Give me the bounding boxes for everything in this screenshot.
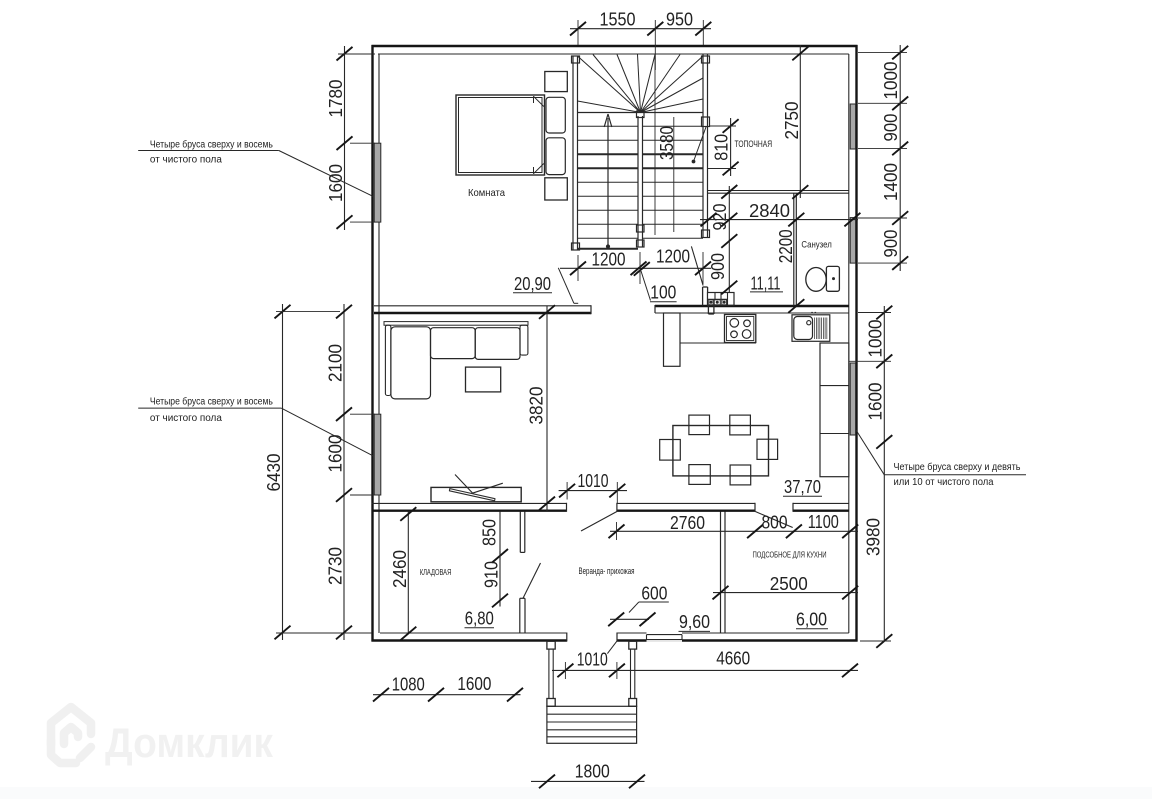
svg-text:9,60: 9,60 [679, 612, 710, 632]
svg-text:1600: 1600 [865, 383, 885, 421]
kitchen east cabinet [820, 343, 849, 477]
svg-text:2760: 2760 [670, 513, 705, 533]
dimension 900 vertical [728, 241, 730, 293]
kitchen pier [664, 313, 681, 366]
bed mattress [456, 95, 545, 175]
svg-text:3980: 3980 [863, 518, 883, 556]
svg-text:КЛАДОВАЯ: КЛАДОВАЯ [420, 567, 452, 577]
wall kitchen north cap [654, 305, 656, 313]
svg-text:950: 950 [666, 10, 693, 30]
dining table [673, 426, 769, 476]
door leaf stairs-kitchen [691, 246, 703, 285]
svg-text:Комната: Комната [468, 187, 505, 199]
dimension 2460 [407, 512, 409, 635]
svg-text:1780: 1780 [326, 80, 346, 118]
sofa cushion 1 [431, 328, 476, 359]
sofa chaise [391, 327, 431, 399]
dimension left 2100 1600 2730 [343, 304, 345, 640]
svg-text:900: 900 [708, 253, 728, 280]
dimension 910 [499, 551, 501, 607]
svg-text:2500: 2500 [770, 574, 808, 594]
dining chairs [689, 415, 710, 435]
svg-text:1800: 1800 [575, 762, 610, 782]
dimension 1800 [531, 780, 645, 782]
svg-text:3580: 3580 [657, 126, 677, 160]
stairs direction arrow [607, 118, 609, 247]
wall top outer [372, 45, 858, 47]
sofa back [384, 322, 528, 326]
svg-text:2100: 2100 [325, 344, 345, 382]
dimension 1200 1200 [560, 267, 711, 269]
dimension 3580 [673, 117, 675, 232]
svg-text:11,11: 11,11 [751, 274, 781, 294]
svg-text:Четыре бруса сверху и восемь: Четыре бруса сверху и восемь [150, 397, 273, 408]
wall bedroom south thin [374, 305, 591, 307]
svg-text:2200: 2200 [776, 229, 796, 263]
wall bottom storeroom outer [372, 639, 568, 641]
porch posts bottom [547, 699, 555, 707]
dimension 850 [499, 512, 501, 561]
toilet [806, 268, 826, 292]
svg-text:Домклик: Домклик [105, 719, 273, 766]
door leaf storeroom [523, 563, 541, 598]
stairs center rail [637, 116, 639, 247]
svg-text:от чистого пола: от чистого пола [150, 155, 223, 166]
svg-text:Веранда- прихожая: Веранда- прихожая [579, 566, 635, 576]
porch rails [548, 649, 550, 698]
wall left inner [378, 54, 380, 633]
svg-text:1600: 1600 [326, 164, 346, 202]
dimension left 1780 1600 [344, 46, 346, 230]
dimension 3820 [546, 306, 548, 511]
svg-text:ТОПОЧНАЯ: ТОПОЧНАЯ [735, 139, 773, 149]
wall right inner [848, 54, 850, 633]
dimension 1010 upper [559, 490, 627, 492]
bed corner folds [534, 96, 544, 106]
wall bedroom south cap [590, 305, 592, 314]
stairs winder fan [578, 112, 704, 114]
entry door threshold [647, 632, 683, 642]
dimension right 1000 1600 3980 [883, 306, 885, 642]
wall veranda north segment A thin [372, 502, 567, 504]
stairs treads right flight [643, 125, 704, 127]
svg-text:850: 850 [479, 519, 499, 546]
wall kitchen north thick [655, 305, 849, 307]
bed nightstand top [545, 72, 568, 92]
svg-text:Четыре бруса сверху и восемь: Четыре бруса сверху и восемь [150, 139, 273, 150]
watermark bottom band [0, 787, 1152, 799]
porch steps [547, 706, 637, 743]
svg-text:1550: 1550 [600, 10, 636, 30]
dimension 810 [730, 118, 732, 176]
wall veranda north segment C cap [792, 503, 794, 512]
svg-text:600: 600 [641, 584, 667, 604]
svg-text:3820: 3820 [527, 387, 547, 425]
wall bedroom south thick [374, 312, 591, 314]
kitchen sink [792, 315, 830, 342]
svg-text:1000: 1000 [865, 320, 885, 358]
sofa cushion 2 [475, 328, 520, 360]
svg-text:37,70: 37,70 [784, 477, 821, 497]
svg-text:20,90: 20,90 [514, 274, 551, 294]
dimension 1010 bottom and 4660 [552, 669, 858, 671]
svg-text:900: 900 [881, 230, 901, 258]
svg-text:1400: 1400 [881, 163, 901, 201]
wall veranda north segment A cap [566, 503, 568, 512]
kitchen cabinet line [680, 342, 756, 344]
svg-text:1010: 1010 [577, 650, 608, 670]
dimension 2200 [788, 299, 804, 313]
svg-text:1000: 1000 [881, 62, 901, 100]
dimension top 1550 950 [570, 28, 711, 30]
wall top inner [378, 53, 849, 55]
svg-text:2460: 2460 [390, 550, 410, 588]
wall bottom right section inner [617, 632, 849, 634]
dimension 920 [728, 186, 730, 241]
svg-text:или 10 от чистого пола: или 10 от чистого пола [894, 477, 995, 488]
wall left outer [371, 45, 373, 642]
svg-text:6,00: 6,00 [796, 610, 827, 630]
porch posts top [547, 641, 555, 649]
wall utility west [720, 511, 722, 633]
dimension 2750 [799, 45, 801, 198]
wall veranda north segment A thick [372, 510, 567, 512]
svg-text:от чистого пола: от чистого пола [150, 413, 223, 424]
svg-text:2730: 2730 [325, 547, 345, 585]
svg-text:2750: 2750 [782, 102, 802, 140]
svg-text:Четыре бруса сверху и девять: Четыре бруса сверху и девять [894, 462, 1021, 473]
wall bottom right cap [616, 633, 618, 642]
svg-text:Санузел: Санузел [801, 240, 831, 250]
dimension 2760 800 1100 [610, 530, 858, 532]
wall veranda north segment C thin [793, 502, 849, 504]
wall bottom right section outer [617, 639, 858, 641]
svg-text:1200: 1200 [656, 246, 690, 266]
wall veranda north segment B thick [617, 510, 755, 512]
svg-text:810: 810 [712, 134, 732, 161]
wall stub through counter [707, 305, 709, 314]
wall veranda north segment B caps [616, 503, 618, 512]
wall boiler-room south [708, 190, 849, 192]
wall bottom storeroom cap [566, 633, 568, 642]
stairs left rail [572, 56, 574, 250]
watermark Domclick house icon [51, 707, 91, 763]
wall veranda north segment C thick [793, 510, 849, 512]
svg-text:ПОДСОБНОЕ ДЛЯ КУХНИ: ПОДСОБНОЕ ДЛЯ КУХНИ [753, 549, 827, 559]
storeroom shelf [431, 487, 521, 501]
dimension 1080 1600 [373, 694, 521, 696]
svg-text:1080: 1080 [392, 675, 425, 695]
door leaf utility [755, 512, 792, 528]
svg-text:1600: 1600 [457, 674, 491, 694]
kitchen stove [725, 315, 756, 343]
dimension 2840 [700, 219, 858, 221]
wall veranda north segment B thin [617, 502, 755, 504]
svg-text:2840: 2840 [749, 201, 790, 221]
sofa right arm [520, 325, 528, 355]
window right middle [850, 218, 855, 264]
bed pillows [546, 97, 565, 133]
window left lower [374, 414, 381, 495]
window left upper [374, 143, 381, 222]
stairs leader dot 810 [694, 127, 707, 162]
dimension left 6430 [282, 304, 284, 640]
svg-text:6430: 6430 [264, 454, 284, 492]
window right upper [850, 104, 855, 149]
stairs treads left flight [578, 125, 639, 127]
wall bottom storeroom inner [380, 632, 567, 634]
wall kitchen north thin [655, 312, 849, 314]
svg-text:1010: 1010 [578, 471, 609, 491]
wall stub near stairs [702, 287, 704, 306]
svg-text:4660: 4660 [716, 649, 750, 669]
dimension right 1000 900 1400 900 [899, 45, 901, 271]
kitchen switch boxes [708, 293, 735, 306]
window right lower [850, 363, 855, 435]
leader note right [856, 430, 884, 475]
dimension 2500 [713, 592, 858, 594]
wall storeroom east lower jamb [519, 598, 521, 633]
bed nightstand bottom [545, 178, 568, 200]
door leaf veranda [581, 512, 617, 532]
svg-text:6,80: 6,80 [465, 609, 494, 629]
sofa left arm [385, 325, 391, 395]
svg-text:1200: 1200 [592, 250, 626, 270]
leader 100 [641, 271, 651, 301]
svg-text:1100: 1100 [808, 512, 839, 532]
stairs right rail [702, 54, 704, 238]
coffee table [466, 367, 501, 392]
svg-text:910: 910 [481, 561, 501, 588]
svg-text:900: 900 [881, 114, 901, 142]
wall right outer [855, 45, 857, 642]
wall bathroom west [793, 193, 795, 306]
svg-text:800: 800 [762, 513, 788, 533]
wall storeroom east upper [519, 512, 521, 553]
svg-text:100: 100 [650, 283, 676, 303]
